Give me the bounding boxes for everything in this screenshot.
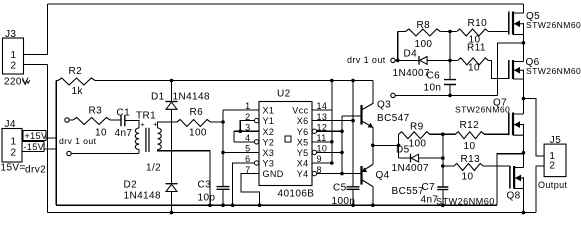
svg-text:C3: C3 xyxy=(198,180,212,191)
svg-text:8: 8 xyxy=(317,165,322,175)
svg-text:Vcc: Vcc xyxy=(292,106,308,116)
svg-text:R11: R11 xyxy=(467,43,486,54)
svg-text:Y1: Y1 xyxy=(263,116,275,126)
svg-text:1: 1 xyxy=(245,101,250,111)
svg-text:+: + xyxy=(153,119,158,128)
svg-text:R13: R13 xyxy=(461,154,481,165)
svg-text:5: 5 xyxy=(245,144,250,154)
svg-text:X3: X3 xyxy=(263,148,275,158)
svg-text:Q4: Q4 xyxy=(376,170,390,181)
svg-text:7: 7 xyxy=(245,165,250,175)
svg-text:J4: J4 xyxy=(5,119,16,130)
svg-text:Y3: Y3 xyxy=(263,159,275,169)
svg-text:4: 4 xyxy=(245,133,250,143)
svg-text:BC557: BC557 xyxy=(392,186,425,197)
svg-text:J3: J3 xyxy=(5,29,16,40)
svg-text:10: 10 xyxy=(95,128,107,139)
svg-text:X4: X4 xyxy=(297,159,309,169)
svg-text:GND: GND xyxy=(263,169,284,179)
svg-text:11: 11 xyxy=(317,133,327,143)
svg-text:Output: Output xyxy=(538,180,568,190)
svg-text:13: 13 xyxy=(317,112,328,122)
svg-text:R6: R6 xyxy=(190,107,204,118)
svg-text:Y2: Y2 xyxy=(263,137,275,147)
svg-text:9: 9 xyxy=(317,154,322,164)
svg-text:R3: R3 xyxy=(89,106,103,117)
svg-text:R8: R8 xyxy=(417,20,431,31)
svg-text:Y5: Y5 xyxy=(297,148,309,158)
svg-text:10: 10 xyxy=(462,171,474,182)
svg-text:+15V: +15V xyxy=(25,131,48,141)
svg-text:C1: C1 xyxy=(117,108,131,119)
svg-text:1: 1 xyxy=(11,137,17,148)
svg-text:drv2: drv2 xyxy=(25,164,46,175)
svg-text:6: 6 xyxy=(245,154,250,164)
svg-text:STW26NM60: STW26NM60 xyxy=(455,104,510,114)
svg-text:STW26NM60: STW26NM60 xyxy=(526,20,581,30)
svg-text:10: 10 xyxy=(468,63,480,74)
svg-text:2: 2 xyxy=(11,61,17,72)
svg-text:J5: J5 xyxy=(550,135,561,146)
svg-text:1k: 1k xyxy=(72,86,84,97)
svg-text:D1: D1 xyxy=(151,92,165,103)
svg-text:C6: C6 xyxy=(427,71,441,82)
svg-text:+: + xyxy=(140,120,145,129)
svg-text:1N4148: 1N4148 xyxy=(124,191,161,202)
svg-text:2: 2 xyxy=(11,148,17,159)
svg-text:3: 3 xyxy=(245,122,250,132)
svg-text:STW26NM60: STW26NM60 xyxy=(526,66,581,76)
svg-text:STW26NM60: STW26NM60 xyxy=(436,196,495,206)
svg-text:drv 1 out: drv 1 out xyxy=(347,55,386,65)
svg-text:X1: X1 xyxy=(263,106,275,116)
svg-text:2: 2 xyxy=(549,161,555,172)
svg-text:X5: X5 xyxy=(297,137,309,147)
svg-text:R10: R10 xyxy=(468,18,488,29)
svg-text:10p: 10p xyxy=(198,193,216,204)
svg-text:10n: 10n xyxy=(424,82,442,93)
svg-text:10: 10 xyxy=(464,141,476,152)
svg-text:100: 100 xyxy=(409,138,427,149)
svg-text:U2: U2 xyxy=(277,89,291,100)
svg-text:40106B: 40106B xyxy=(278,189,315,200)
svg-text:R9: R9 xyxy=(410,122,424,133)
svg-text:X2: X2 xyxy=(263,127,275,137)
svg-text:D2: D2 xyxy=(124,180,138,191)
svg-text:D5: D5 xyxy=(396,144,410,155)
svg-text:drv 1 out: drv 1 out xyxy=(59,136,97,146)
svg-text:C7: C7 xyxy=(422,182,436,193)
svg-text:12: 12 xyxy=(317,122,328,132)
svg-text:Y6: Y6 xyxy=(297,127,309,137)
svg-text:1: 1 xyxy=(11,50,17,61)
svg-text:220V: 220V xyxy=(4,77,29,88)
svg-text:D4: D4 xyxy=(404,49,418,60)
svg-text:C5: C5 xyxy=(333,183,347,194)
svg-text:1N4007: 1N4007 xyxy=(392,163,429,174)
svg-text:10: 10 xyxy=(317,144,328,154)
svg-text:2: 2 xyxy=(245,112,250,122)
svg-text:Q3: Q3 xyxy=(377,100,391,111)
svg-text:1N4007: 1N4007 xyxy=(393,68,430,79)
svg-text:14: 14 xyxy=(317,101,328,111)
svg-text:100: 100 xyxy=(189,128,207,139)
svg-text:4n7: 4n7 xyxy=(115,128,133,139)
svg-text:1N4148: 1N4148 xyxy=(173,92,210,103)
svg-text:15V=: 15V= xyxy=(1,162,26,173)
svg-text:-15V: -15V xyxy=(24,142,45,152)
svg-text:BC547: BC547 xyxy=(377,113,410,124)
svg-text:R12: R12 xyxy=(460,120,480,131)
svg-text:100: 100 xyxy=(415,39,433,50)
svg-text:Y4: Y4 xyxy=(297,169,309,179)
svg-text:100n: 100n xyxy=(332,196,356,207)
svg-text:Q8: Q8 xyxy=(507,190,521,201)
svg-text:X6: X6 xyxy=(297,116,309,126)
svg-text:R2: R2 xyxy=(69,66,83,77)
svg-text:1/2: 1/2 xyxy=(146,162,161,173)
